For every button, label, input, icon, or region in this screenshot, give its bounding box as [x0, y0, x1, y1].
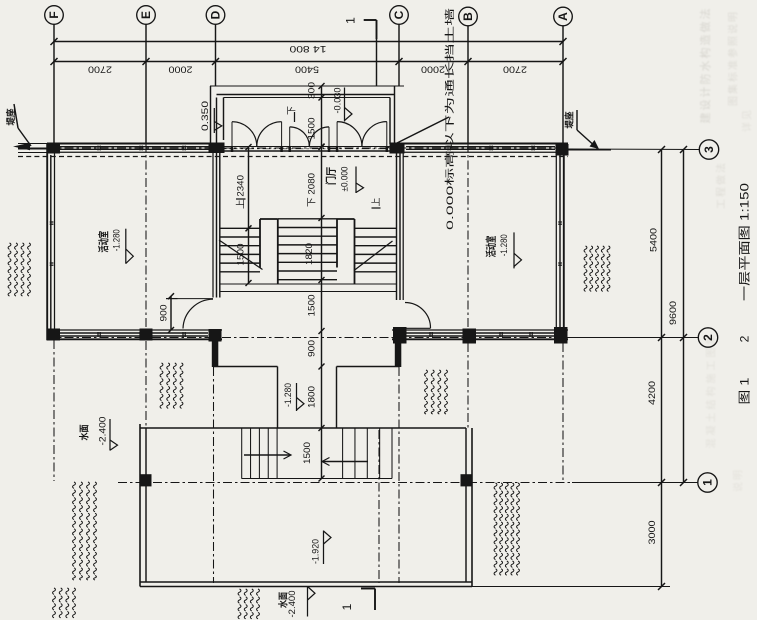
svg-text:1: 1 [701, 479, 715, 486]
platform bottom edge [140, 581, 472, 583]
svg-text:上: 上 [371, 197, 381, 206]
column D top/entry [209, 143, 225, 154]
svg-text:-1.920: -1.920 [311, 539, 322, 564]
svg-text:-2.400: -2.400 [287, 591, 298, 618]
right room bottom wall w/ window [392, 329, 568, 331]
grid line C (upper leader) [398, 24, 400, 86]
svg-text:2700: 2700 [88, 64, 112, 75]
column B bottom [463, 329, 477, 344]
grid bubble D [206, 6, 225, 25]
svg-text:1500: 1500 [307, 118, 317, 140]
porch outer step edge [210, 85, 404, 87]
grid line C (below) [398, 367, 400, 583]
grid line B (upper leader) [467, 26, 469, 143]
svg-text:900: 900 [159, 305, 169, 322]
stair hall right flight treads [355, 227, 397, 229]
svg-text:活动室: 活动室 [97, 231, 110, 253]
left room door [178, 298, 214, 300]
svg-text:堤座: 堤座 [5, 109, 16, 126]
svg-text:图集标准参照说明: 图集标准参照说明 [727, 10, 740, 106]
svg-text:2: 2 [738, 335, 752, 342]
svg-text:下 2080: 下 2080 [307, 173, 317, 207]
svg-text:14 800: 14 800 [290, 43, 327, 54]
grid bubble E [137, 6, 156, 25]
platform left wall [139, 424, 141, 587]
grid bubble 3 [699, 140, 718, 159]
outdoor stair right [342, 428, 344, 479]
column D bottom [209, 329, 222, 342]
grid line E (upper leader) [145, 24, 147, 143]
column C entry [390, 143, 405, 154]
grid bubble 2 [698, 328, 717, 347]
svg-text:1500: 1500 [307, 295, 317, 317]
right stair arrow 下 [322, 461, 368, 463]
grid line F (upper leader) [53, 24, 55, 143]
grid bubble B [459, 7, 478, 26]
svg-text:图 1: 图 1 [738, 377, 752, 404]
svg-text:0.000标高以下为通长挡土墙: 0.000标高以下为通长挡土墙 [444, 7, 456, 230]
entry wall [213, 146, 399, 148]
svg-text:2700: 2700 [503, 64, 527, 75]
right dim line inner: 5400/4200/3000 [661, 150, 663, 587]
svg-text:-0.030: -0.030 [333, 88, 343, 114]
svg-text:3000: 3000 [647, 521, 658, 545]
water waves bottom right tall [494, 483, 497, 575]
grid line 3 [18, 147, 47, 149]
grid bubble 1 [698, 473, 717, 492]
water waves left [8, 243, 11, 296]
middle flight treads [278, 218, 337, 220]
grid line 2 [47, 337, 568, 339]
grid line E (room) [145, 143, 147, 330]
svg-text:±0.000: ±0.000 [339, 167, 350, 192]
grid line D (below) [213, 367, 215, 583]
court left edge [212, 341, 219, 367]
svg-text:工程做法: 工程做法 [715, 161, 728, 209]
svg-text:4200: 4200 [647, 381, 658, 405]
porch inner floor edge [217, 94, 395, 96]
landing edge lines [220, 283, 396, 285]
svg-text:F: F [47, 11, 61, 18]
svg-text:说明: 说明 [732, 468, 745, 492]
svg-text:300: 300 [307, 82, 317, 99]
water waves below left room [160, 363, 163, 408]
eave dashed line [18, 156, 568, 158]
porch left wall [210, 86, 212, 144]
left room right wall (grid D) [212, 147, 214, 298]
left stair arrow 下 [244, 454, 290, 456]
water waves bottom left corner [53, 588, 56, 618]
svg-text:详见: 详见 [741, 108, 754, 132]
svg-text:上 2340: 上 2340 [236, 175, 246, 209]
svg-text:活动室: 活动室 [485, 235, 498, 257]
left room bottom wall w/ window [47, 329, 222, 331]
svg-text:1: 1 [340, 603, 354, 610]
svg-text:混凝土结构施工图集: 混凝土结构施工图集 [705, 332, 718, 449]
right flight break line [354, 241, 393, 271]
svg-text:5400: 5400 [295, 64, 319, 75]
svg-text:1500: 1500 [236, 244, 246, 266]
svg-text:一层平面图 1:150: 一层平面图 1:150 [738, 183, 752, 301]
svg-text:3: 3 [702, 146, 716, 153]
left eave band [18, 143, 47, 145]
svg-text:9600: 9600 [668, 301, 679, 325]
svg-text:堤座: 堤座 [564, 112, 575, 129]
center dim chain [321, 147, 323, 479]
dimension row 2: 2700/2000/5400/2000/2700 [54, 61, 563, 63]
porch right wall [394, 86, 396, 144]
svg-text:2000: 2000 [169, 64, 193, 75]
outdoor stair left [241, 428, 243, 479]
grid line A (upper leader) [562, 26, 564, 143]
water waves bottom left tall [73, 482, 76, 580]
svg-text:1500: 1500 [302, 442, 312, 464]
column A bottom [554, 327, 568, 344]
dimension row 1: overall 14800 [54, 41, 563, 43]
svg-text:2000: 2000 [421, 64, 445, 75]
svg-text:-1.280: -1.280 [112, 229, 123, 251]
svg-text:1: 1 [344, 17, 358, 24]
grid line A (below) [562, 343, 564, 481]
right newel wall [336, 219, 338, 268]
grid bubble C [390, 6, 409, 25]
svg-text:1800: 1800 [307, 386, 317, 408]
grid bubble F [45, 6, 64, 25]
column F bottom [47, 329, 61, 341]
water waves bottom center [238, 589, 241, 619]
svg-text:水面: 水面 [79, 424, 91, 440]
left newel wall [259, 219, 261, 268]
terrace step edges [214, 366, 278, 368]
dim 上2340 / 1500 (left flight) [248, 147, 250, 283]
column A top [556, 144, 569, 156]
right dim line outer: 9600 [683, 150, 685, 483]
svg-text:E: E [139, 11, 153, 19]
left room left wall w/ window [46, 144, 48, 341]
svg-text:C: C [392, 10, 406, 19]
svg-text:900: 900 [307, 340, 317, 357]
column F top [47, 143, 61, 154]
water waves right [584, 246, 587, 291]
dim 900 (left door) [170, 296, 172, 330]
svg-text:A: A [556, 12, 570, 21]
right room left wall (grid C) [396, 147, 398, 301]
stair hall left flight treads [220, 227, 260, 229]
grid line 1 [118, 482, 572, 484]
svg-text:0.350: 0.350 [200, 101, 210, 131]
right eave line [568, 149, 612, 151]
svg-text:-2.400: -2.400 [98, 417, 109, 446]
platform right wall [471, 428, 473, 587]
grid line B (room) [467, 143, 469, 330]
dim 1500 (porch depth) [321, 98, 323, 147]
bottom dim extension [472, 586, 670, 588]
entry door leaves and arcs [231, 122, 233, 147]
leader to note [386, 117, 449, 149]
svg-text:1820: 1820 [304, 243, 314, 265]
terrace side edges [277, 367, 279, 429]
column C bottom [393, 327, 407, 344]
right room right wall (grid A) w/ window [563, 144, 565, 344]
svg-text:-1.280: -1.280 [499, 234, 510, 256]
svg-text:2: 2 [701, 334, 715, 341]
grid line D (upper leader) [215, 24, 217, 86]
water waves below right room [425, 370, 428, 414]
svg-text:建设计防水构造做法: 建设计防水构造做法 [698, 7, 712, 124]
svg-text:5400: 5400 [649, 228, 660, 252]
grid line F (below) [53, 340, 55, 481]
dim 300 (porch) [321, 86, 323, 98]
svg-text:D: D [209, 10, 223, 19]
column E bottom [140, 329, 153, 341]
svg-text:B: B [461, 12, 475, 21]
svg-text:门厅: 门厅 [325, 167, 338, 185]
left room top wall w/ window [47, 143, 222, 145]
grid bubble A [554, 7, 573, 26]
court right edge [395, 343, 402, 367]
section line (lower) [378, 430, 380, 583]
platform columns at grid 1 [140, 474, 152, 486]
platform top edge [140, 427, 466, 429]
svg-text:-1.280: -1.280 [283, 383, 294, 407]
left flight break line [219, 240, 263, 270]
right room top wall w/ window [392, 143, 568, 145]
right room door [405, 327, 431, 329]
